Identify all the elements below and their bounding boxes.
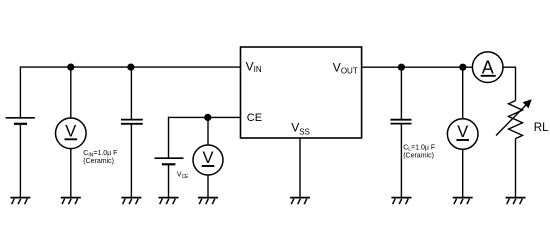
voltmeter VM3 (output voltage) — [447, 119, 478, 150]
battery VCE — [155, 158, 184, 164]
wire VSS lead to ground — [299, 138, 301, 198]
node junction dot output bus / capacitor CL — [398, 64, 405, 71]
svg-text:(Ceramic): (Ceramic) — [403, 152, 434, 159]
ground capacitor CL — [391, 198, 411, 205]
wire voltmeter VM2 top lead — [207, 117, 209, 145]
wire input bus (battery to VIN pin) — [20, 66, 240, 68]
wire battery B1 negative lead — [19, 124, 21, 198]
wire resistor RL bottom lead — [515, 139, 517, 198]
wire capacitor CIN bottom lead — [130, 124, 132, 198]
voltmeter VM1 (input voltage) — [56, 118, 87, 149]
svg-text:V: V — [202, 149, 213, 167]
node junction dot input bus / capacitor CIN — [127, 64, 134, 71]
svg-text:CE: CE — [247, 112, 262, 124]
svg-text:RL: RL — [534, 122, 549, 134]
node junction dot CE bus / voltmeter VM2 — [204, 114, 211, 121]
svg-text:V: V — [65, 122, 76, 140]
wire battery VCE negative lead — [168, 164, 170, 197]
label CIN=1.0uF (Ceramic) — [83, 150, 117, 165]
ground voltmeter VM3 — [453, 198, 473, 205]
ground battery VCE — [159, 198, 179, 205]
label CL=1.0uF (Ceramic) — [403, 144, 435, 159]
svg-text:A: A — [482, 58, 494, 78]
svg-text:V: V — [457, 123, 468, 141]
capacitor CL — [391, 120, 412, 124]
ground VSS — [290, 198, 310, 205]
wire capacitor CL bottom lead — [400, 124, 402, 198]
capacitor CIN — [121, 120, 143, 124]
battery B1 input supply — [6, 118, 35, 124]
ground capacitor CIN — [121, 198, 141, 205]
wire voltmeter VM3 top lead — [462, 67, 464, 119]
IC U1 regulator block — [241, 47, 362, 138]
resistor RL (variable load) — [509, 101, 523, 139]
wire CE bus (CE pin to VCE battery) — [169, 116, 241, 118]
node junction dot input bus / voltmeter VM1 — [67, 64, 74, 71]
wire capacitor CL top lead — [400, 67, 402, 120]
wire output bus (VOUT pin to ammeter) — [362, 66, 473, 68]
wire voltmeter VM2 bottom lead — [207, 175, 209, 198]
wire battery B1 positive lead — [19, 66, 21, 117]
wire battery VCE positive lead — [168, 117, 170, 159]
ground battery B1 — [10, 198, 30, 205]
svg-text:(Ceramic): (Ceramic) — [83, 158, 114, 165]
wire ammeter right lead to RL — [503, 67, 516, 100]
node junction dot output bus / voltmeter VM3 — [459, 64, 466, 71]
wire voltmeter VM1 bottom lead — [70, 149, 72, 198]
ground voltmeter VM2 — [198, 198, 218, 205]
wire voltmeter VM3 bottom lead — [462, 149, 464, 197]
wire voltmeter VM1 top lead — [70, 67, 72, 118]
arrow of variable resistor RL — [496, 99, 532, 135]
ground voltmeter VM1 — [61, 198, 81, 205]
ground resistor RL — [506, 198, 526, 205]
ammeter AM1 (load current) — [472, 52, 503, 83]
wire capacitor CIN top lead — [130, 67, 132, 120]
voltmeter VM2 (CE voltage) — [193, 145, 223, 175]
